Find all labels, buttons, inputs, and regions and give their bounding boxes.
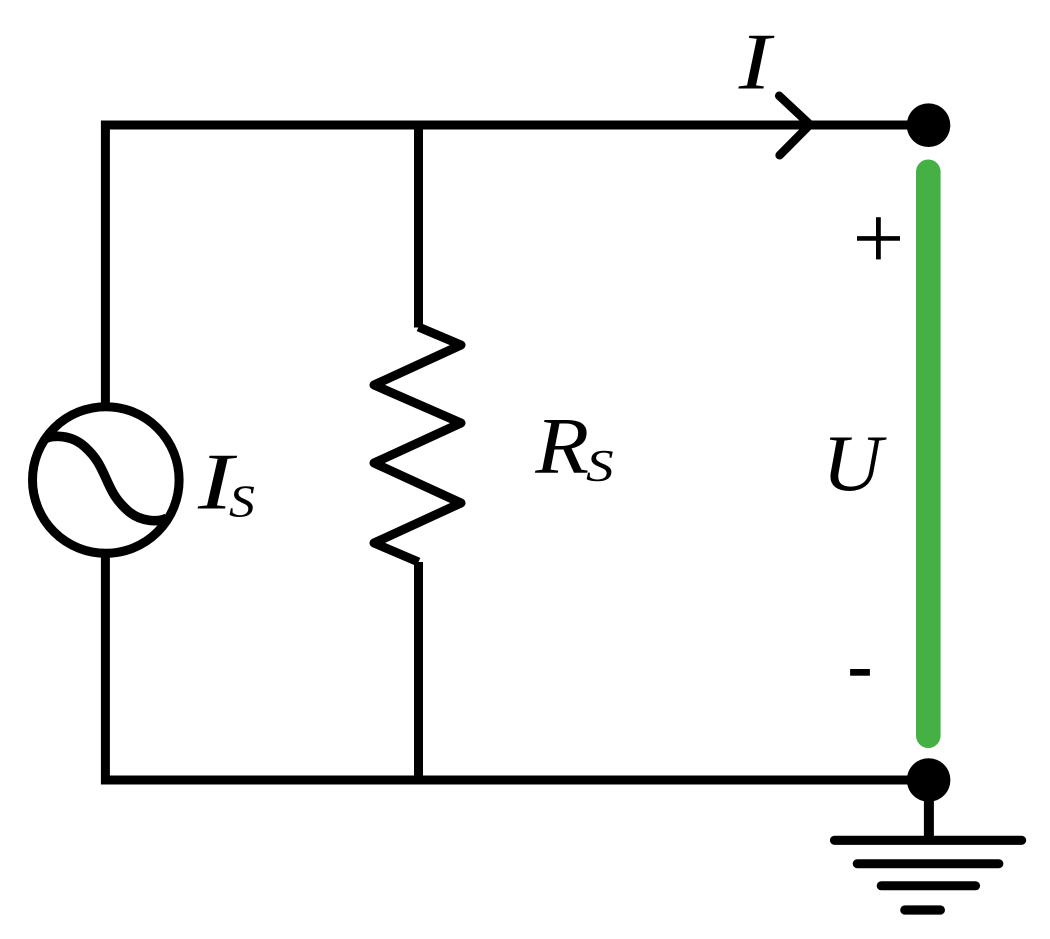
current source U1 circle (33, 407, 180, 554)
label - (port polarity) (850, 669, 870, 676)
svg-text:R: R (534, 402, 589, 490)
svg-text:U: U (822, 419, 887, 508)
wire bottom loop: left vertical + bottom horizontal (105, 555, 928, 781)
ground bar 4 (905, 905, 941, 914)
ground stem (924, 798, 934, 840)
ground bar 1 (835, 836, 1022, 845)
resistor RS top lead wire (414, 125, 423, 328)
ground bar 3 (881, 881, 975, 890)
ground bar 2 (857, 859, 999, 868)
current source U1 sine wave (45, 436, 167, 520)
svg-text:I: I (738, 18, 775, 107)
svg-text:S: S (586, 441, 614, 491)
svg-text:S: S (229, 478, 255, 527)
port U green bar (916, 172, 941, 736)
resistor RS bottom lead wire (414, 562, 423, 780)
current arrow I chevron (779, 96, 810, 155)
label + (port polarity) (857, 217, 900, 259)
wire top loop: left vertical + top horizontal (105, 125, 928, 404)
node top right (907, 103, 951, 147)
node bottom right (907, 758, 951, 802)
resistor RS zigzag (374, 327, 461, 562)
